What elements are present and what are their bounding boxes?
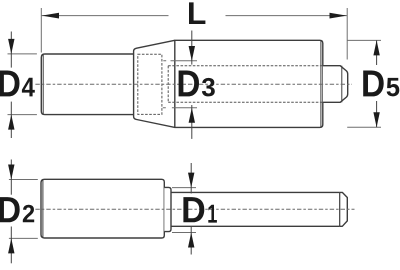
dimension D3 witness lines [163, 61, 197, 108]
dimension L line [41, 15, 347, 17]
bore hidden outline (dashed) [168, 66, 322, 102]
label D5 [363, 71, 399, 97]
dimension D2 witness lines [9, 180, 38, 239]
chamfer line big cylinder right [320, 41, 322, 128]
label D1 [183, 197, 217, 223]
label D3 [179, 71, 215, 97]
cone (top view) [134, 40, 175, 127]
dimension D1 arrow top [190, 163, 192, 194]
small cylinder body (top view left) [41, 54, 133, 115]
dimension D5 arrow top [376, 40, 378, 65]
label L [189, 2, 205, 24]
dimension D5 witness lines [347, 40, 381, 127]
chamfer line small cylinder [42, 54, 44, 114]
center line bottom view [35, 208, 354, 210]
dimension D2 arrow top [10, 160, 12, 195]
label D2 [0, 197, 34, 222]
dimension L extension line right [346, 8, 348, 60]
handle cylinder (bottom view) [41, 179, 164, 238]
rod (bottom view) [171, 192, 340, 226]
arrowhead L left [42, 13, 59, 19]
dimension D2 arrow bottom [10, 227, 12, 264]
hex socket hidden outline (dashed) [138, 54, 162, 114]
rod tip [340, 192, 348, 226]
center line top view [35, 83, 352, 85]
chamfer line rod tip [339, 192, 341, 226]
dimension D4 arrow top [10, 32, 12, 68]
dimension D1 arrow bottom [190, 227, 192, 255]
big cylinder (top view) [175, 40, 323, 127]
dimension D4 witness lines [8, 54, 37, 115]
dimension D1 witness lines [172, 188, 196, 233]
dimension D4 arrow bottom [10, 102, 12, 138]
dimension D3 arrow bottom [191, 105, 193, 139]
dimension D5 arrow bottom [376, 101, 378, 127]
chamfer line handle cylinder [42, 180, 44, 238]
square drive protrusion (top view right) [323, 66, 348, 103]
arrowhead L right [330, 13, 347, 19]
label D4 [0, 71, 35, 97]
dimension D3 arrow top [191, 31, 193, 65]
dimension L extension line left [40, 8, 42, 53]
collar (bottom view) [164, 187, 171, 231]
chamfer line protrusion [341, 66, 343, 103]
